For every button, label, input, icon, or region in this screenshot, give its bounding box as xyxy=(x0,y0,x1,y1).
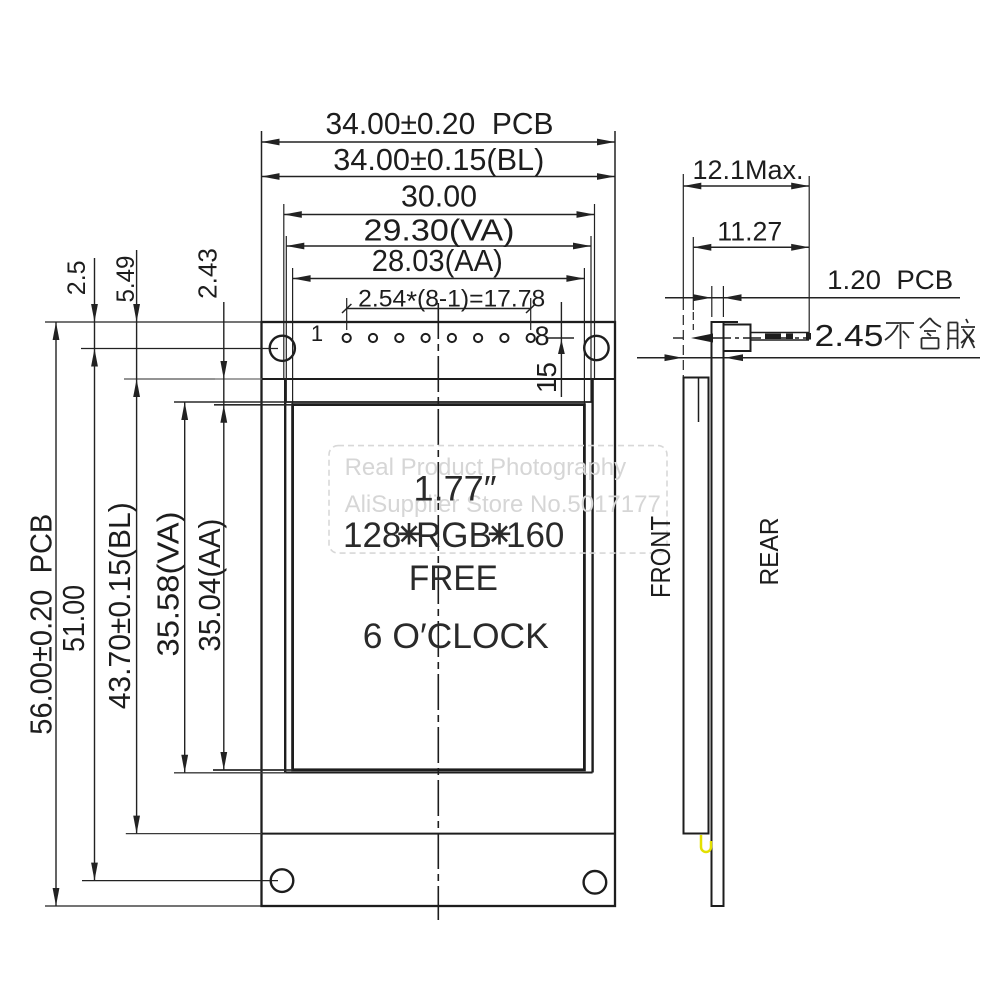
BL top line xyxy=(262,378,615,380)
svg-text:RGB: RGB xyxy=(416,516,492,555)
dimension 34.00+-0.20 PCB xyxy=(262,131,616,405)
AA bottom left extension xyxy=(213,769,293,771)
extension line glass rear xyxy=(692,237,694,310)
svg-text:2.45: 2.45 xyxy=(815,318,884,353)
svg-text:6 O′CLOCK: 6 O′CLOCK xyxy=(363,617,549,656)
svg-text:2.5: 2.5 xyxy=(63,260,91,295)
svg-text:1.20 PCB: 1.20 PCB xyxy=(827,265,953,295)
dimension 2.5/51.00 vertical xyxy=(94,258,96,881)
dimension 12.1Max xyxy=(637,174,980,377)
svg-text:1.77″: 1.77″ xyxy=(414,470,497,509)
svg-text:2.54*(8-1)=17.78: 2.54*(8-1)=17.78 xyxy=(358,286,545,317)
mounting hole bottom-right xyxy=(584,871,607,894)
star glyph 1 xyxy=(398,523,510,545)
AA rectangle xyxy=(293,405,585,770)
glass right edge xyxy=(591,379,593,773)
connector block xyxy=(724,325,751,352)
dimension 34.00+-0.15(BL) xyxy=(262,176,616,178)
AA top left extension xyxy=(214,404,293,406)
pin holes row xyxy=(343,334,535,342)
left reference line hole center top xyxy=(81,348,278,350)
pin dark segment 2 xyxy=(786,334,793,340)
dimension 5.49/43.70 vertical xyxy=(136,250,138,834)
extension line PCB front xyxy=(711,286,713,317)
svg-text:51.00: 51.00 xyxy=(57,585,91,652)
mounting hole top-right xyxy=(584,336,608,360)
star glyph 2 xyxy=(489,523,510,545)
VA bottom left extension xyxy=(174,772,286,774)
pin dark segment 1 xyxy=(765,334,781,340)
glass/VA bottom edge xyxy=(285,772,592,774)
yellow mark xyxy=(701,835,711,852)
BL bottom line left extension xyxy=(126,833,262,835)
dimension 29.30(VA) xyxy=(286,245,591,247)
dimension 1.20 PCB xyxy=(665,297,960,299)
dimension 28.03(AA) xyxy=(293,278,585,280)
extension line pin end xyxy=(808,176,810,337)
svg-text:34.00±0.15(BL): 34.00±0.15(BL) xyxy=(333,143,544,177)
BL bottom line xyxy=(262,833,615,835)
svg-text:56.00±0.20 PCB: 56.00±0.20 PCB xyxy=(25,514,59,735)
BL top line left extension xyxy=(124,378,262,380)
extension line module front xyxy=(682,174,684,300)
svg-text:35.04(AA): 35.04(AA) xyxy=(193,519,227,652)
svg-text:2.43: 2.43 xyxy=(193,248,223,299)
left reference line hole center bottom xyxy=(82,880,278,882)
watermark box xyxy=(329,446,667,553)
module inner step line xyxy=(698,378,700,422)
svg-text:FREE: FREE xyxy=(409,559,498,598)
svg-text:11.27: 11.27 xyxy=(717,217,782,247)
dimension 15 vertical line xyxy=(547,302,574,397)
mounting hole bottom-left xyxy=(271,869,294,892)
svg-text:35.58(VA): 35.58(VA) xyxy=(152,512,186,657)
extension line glass right xyxy=(594,204,596,379)
extension line VA left xyxy=(285,236,287,402)
svg-text:28.03(AA): 28.03(AA) xyxy=(372,244,503,278)
svg-text:160: 160 xyxy=(506,516,564,555)
svg-text:43.70±0.15(BL): 43.70±0.15(BL) xyxy=(103,502,137,709)
VA top edge xyxy=(285,401,592,403)
svg-text:AliSupplier Store No.5017177: AliSupplier Store No.5017177 xyxy=(345,491,661,518)
extension line glass left xyxy=(283,204,285,379)
dimension 11.27 xyxy=(693,246,809,248)
glass left edge xyxy=(284,379,286,773)
left reference line PCB top xyxy=(45,250,278,906)
dimension 30.00 xyxy=(284,214,595,216)
dimension 35.58(VA) vertical xyxy=(184,402,186,773)
dimension 2.45 leader xyxy=(637,357,980,359)
VA top left extension xyxy=(174,401,286,403)
extension line VA right xyxy=(590,236,592,402)
pin bottom line xyxy=(751,339,810,341)
mounting hole top-left xyxy=(270,336,295,361)
pin top line xyxy=(751,332,810,334)
svg-text:15: 15 xyxy=(531,362,562,393)
extension line AA left xyxy=(292,268,294,405)
extension line pin8 xyxy=(530,298,532,330)
pin tip xyxy=(806,333,811,340)
Chinese text jiao (glue) xyxy=(947,319,975,349)
extension line PCB rear xyxy=(722,286,724,317)
svg-text:128: 128 xyxy=(343,516,401,555)
dimension 2.54*(8-1)=17.78 xyxy=(347,308,531,310)
svg-text:5.49: 5.49 xyxy=(112,256,140,303)
pin centerline with arrow xyxy=(673,334,808,343)
extension line AA right xyxy=(583,268,585,405)
svg-text:8: 8 xyxy=(534,321,549,351)
dimension 2.43/35.04(AA) vertical xyxy=(223,302,225,770)
svg-text:34.00±0.20 PCB: 34.00±0.20 PCB xyxy=(326,107,554,141)
svg-text:FRONT: FRONT xyxy=(645,516,676,598)
svg-text:REAR: REAR xyxy=(754,518,784,586)
left reference line BL top xyxy=(124,378,215,380)
svg-text:30.00: 30.00 xyxy=(401,180,477,214)
PCB bar side view xyxy=(712,322,724,906)
extension line PCB right top xyxy=(614,131,616,322)
Chinese text bu (not) xyxy=(885,318,975,349)
Chinese text han (contain) xyxy=(920,318,941,349)
svg-text:29.30(VA): 29.30(VA) xyxy=(364,214,515,248)
svg-text:1: 1 xyxy=(311,321,323,346)
module bar (glass+BL) xyxy=(684,378,709,834)
centerline front view xyxy=(437,303,439,920)
extension line pin1 xyxy=(346,298,348,330)
PCB outline front view xyxy=(262,322,616,906)
svg-text:12.1Max.: 12.1Max. xyxy=(693,155,804,185)
left reference line PCB bottom xyxy=(45,905,262,907)
connector top line xyxy=(712,321,739,323)
dimension 56.00 PCB vertical xyxy=(55,322,57,906)
extension line PCB left top xyxy=(261,131,263,322)
